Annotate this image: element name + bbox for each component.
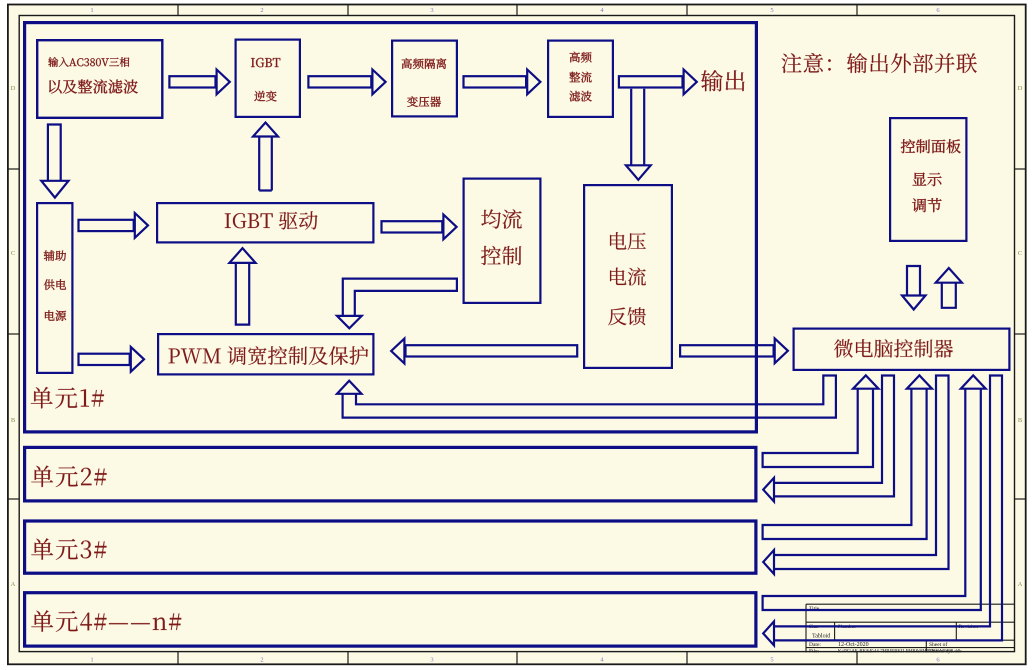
svg-text:Sheet of: Sheet of: [929, 641, 947, 648]
arrow: HF transformer to HF rectifier: [464, 76, 527, 87]
block: IGBT driver: [157, 203, 373, 242]
unit 2 box: [25, 447, 756, 501]
block: IGBT inverter: [236, 40, 300, 117]
svg-text:A: A: [11, 581, 16, 588]
text: inverter: [254, 91, 276, 102]
text: power source: [45, 310, 66, 321]
text: microcomputer controller: [834, 339, 953, 358]
text: and rectifier filter: [49, 79, 138, 93]
arrow: PWM up to IGBT driver: [236, 263, 249, 325]
arrow: panel up arrow: [942, 283, 956, 308]
text: power supply 1: [44, 279, 66, 290]
svg-text:A: A: [1018, 581, 1023, 588]
arrow: IGBT driver up to IGBT inverter (vertical): [259, 137, 272, 191]
zone tick marks bottom: [177, 652, 179, 664]
svg-text:5: 5: [770, 657, 773, 664]
unit 3 box: [25, 521, 756, 573]
svg-text:C: C: [11, 250, 15, 257]
text: filter: [569, 91, 591, 102]
unit 4 box: [25, 593, 756, 646]
arrow: IGBT inverter to HF transformer: [308, 76, 371, 87]
text: IGBT drive: [225, 211, 318, 229]
arrow: output line down to feedback block: [631, 89, 644, 166]
block: voltage current feedback: [584, 185, 672, 368]
arrow: controller to PWM bottom (L-shape via S1): [343, 376, 836, 418]
text: unit 2: [31, 466, 106, 488]
arrow: panel down arrow: [907, 266, 920, 296]
arrow: aux power to PWM block: [79, 354, 130, 365]
arrow: unit3 out to controller (T2): [763, 389, 927, 539]
arrow: HF rectifier to output: [619, 76, 683, 87]
text: PWM width control and protection: [169, 346, 369, 365]
text: transformer: [407, 96, 441, 107]
arrow: controller to unit2 (S2): [774, 376, 894, 497]
svg-text:B: B: [1018, 417, 1023, 424]
zone tick marks right: [1015, 168, 1026, 170]
svg-text:1: 1: [90, 657, 93, 664]
text: current sharing: [481, 209, 522, 229]
text: output: [701, 70, 745, 91]
text: display: [913, 173, 942, 187]
block: input AC380V rectifier filter: [37, 40, 162, 118]
arrow: controller to unit3 (S3): [774, 376, 949, 570]
text: rectify: [569, 72, 591, 83]
text: current: [610, 268, 646, 286]
arrow: IGBT driver to current sharing: [382, 221, 443, 232]
text: input AC380V three-phase: [48, 57, 129, 67]
text: unit 4: [31, 610, 181, 632]
block: HF rectifier filter: [548, 41, 613, 117]
text: IGBT label: [251, 58, 280, 67]
svg-text:2: 2: [260, 657, 263, 664]
text: HF isolation: [402, 58, 447, 69]
text: unit 3: [31, 538, 106, 560]
svg-text:Tabloid: Tabloid: [812, 633, 830, 639]
svg-text:1: 1: [90, 7, 93, 14]
block: HF isolation transformer: [392, 41, 457, 117]
text: auxiliary: [44, 250, 66, 261]
block: control panel display adjust: [890, 118, 966, 241]
arrow: feedback to microcomputer controller: [680, 345, 774, 356]
svg-text:Drawn by:: Drawn by:: [929, 649, 953, 655]
arrow: controller to unit4 (S4): [774, 376, 1002, 641]
svg-text:5: 5: [770, 7, 773, 14]
arrow: input block to IGBT inverter: [169, 76, 215, 87]
text: HF: [570, 52, 592, 63]
zone tick marks left: [8, 168, 19, 170]
zone tick marks top: [177, 5, 179, 16]
block: auxiliary power supply: [37, 203, 72, 373]
text: control panel: [901, 139, 961, 153]
block: current sharing control: [464, 179, 541, 303]
arrow: current sharing to PWM top (L-shape): [343, 279, 457, 316]
title block frame: [806, 603, 1015, 605]
svg-text:D: D: [11, 85, 16, 92]
svg-text:3: 3: [430, 657, 433, 664]
svg-text:B: B: [11, 417, 16, 424]
arrow: unit2 out to controller (T1): [763, 389, 873, 467]
arrow: aux power to IGBT driver: [79, 220, 134, 231]
svg-text:3: 3: [430, 7, 433, 14]
arrow: input block down to aux power: [48, 125, 61, 181]
unit 1 enclosure box: [25, 23, 757, 432]
svg-text:File:: File:: [809, 649, 820, 655]
arrow: feedback block to PWM (leftward): [406, 345, 578, 356]
svg-text:C: C: [1018, 250, 1022, 257]
text: feedback: [608, 307, 646, 325]
svg-text:2: 2: [260, 7, 263, 14]
text: adjust: [912, 198, 941, 212]
block: PWM width control and protection: [158, 334, 373, 374]
text: unit 1: [31, 387, 104, 409]
arrow: unit4 out to controller (T3): [763, 389, 981, 610]
text: note output external parallel: [782, 53, 977, 73]
block: microcomputer controller: [794, 329, 1010, 370]
text: voltage: [610, 232, 646, 250]
svg-text:D: D: [1018, 85, 1023, 92]
svg-text:12-Oct-2020: 12-Oct-2020: [838, 642, 869, 648]
text: control: [481, 246, 521, 265]
svg-text:Date:: Date:: [809, 642, 821, 648]
